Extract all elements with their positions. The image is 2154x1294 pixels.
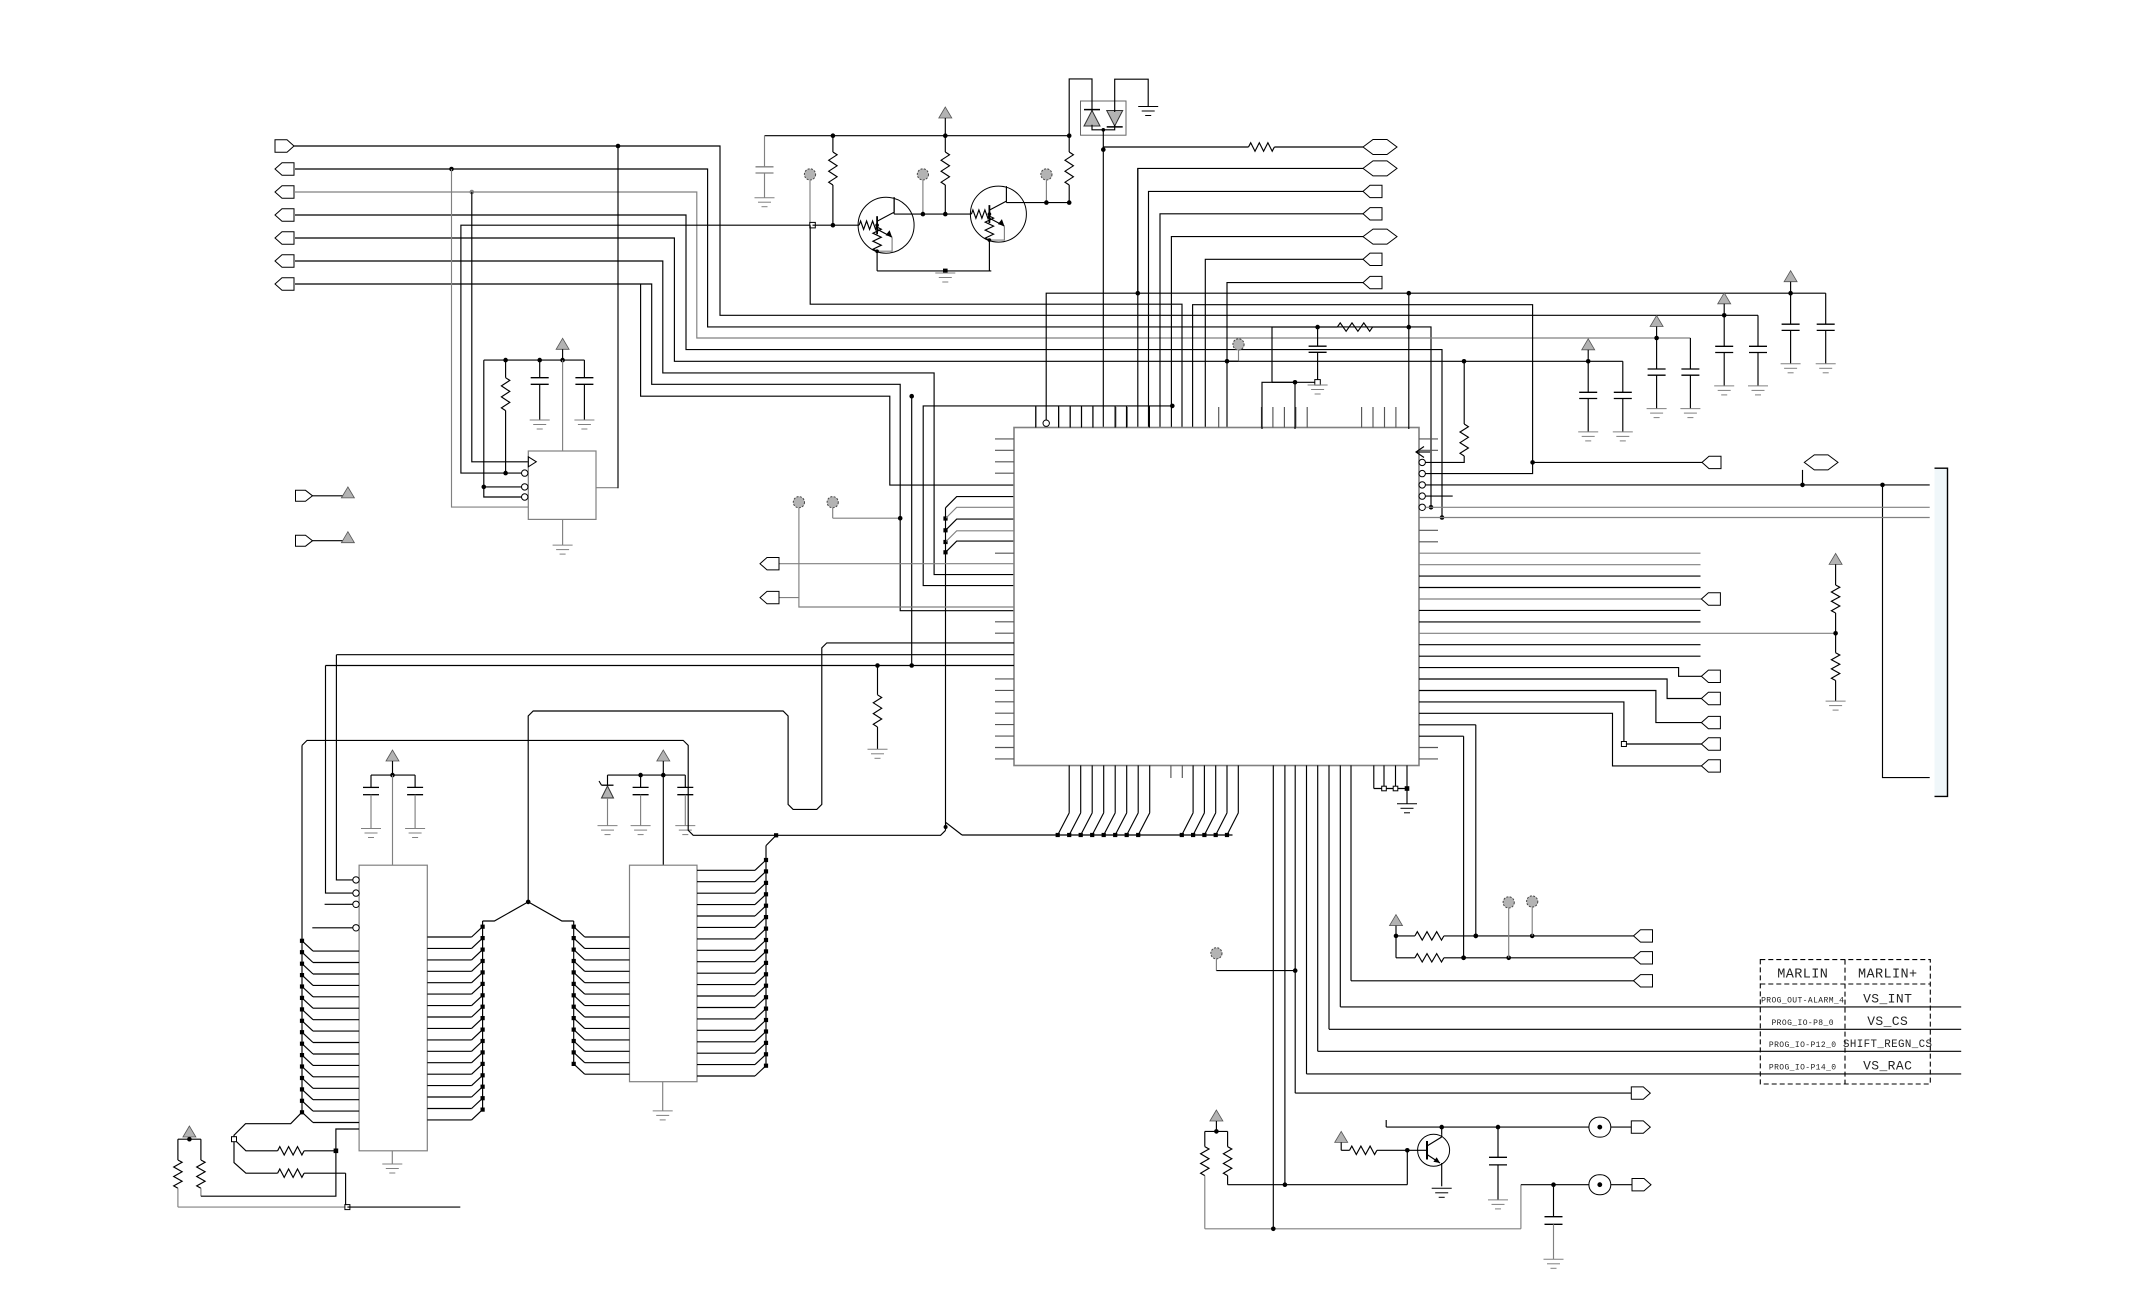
bus L tail	[232, 1112, 303, 1173]
wire r10-run	[201, 1129, 359, 1196]
wire q-collector-rail	[894, 212, 971, 217]
wire ll-pwr	[392, 775, 394, 865]
wire w3	[295, 190, 1690, 338]
resistor R16	[868, 663, 888, 758]
wire clk-route	[461, 225, 810, 473]
bracket BR1	[1935, 468, 1948, 796]
transistor Q2	[970, 186, 1026, 271]
connector J-oval-485	[1803, 455, 1839, 485]
wire tap-911	[909, 394, 914, 668]
wire rowst-701	[1419, 702, 1701, 744]
connector J-1127	[1631, 1121, 1650, 1133]
capacitor C11	[675, 775, 695, 835]
resistor R14	[1201, 1131, 1209, 1228]
wire bus-1317	[1317, 765, 1319, 1051]
capacitor C10	[631, 775, 651, 835]
connector J-left-6	[275, 255, 294, 267]
wire w2	[295, 167, 1433, 510]
wire row-519g	[1419, 517, 1930, 519]
wire row2	[1138, 168, 1363, 429]
connector J-left-2	[275, 163, 294, 175]
table row SHIFT_REGN_CS	[1769, 1039, 1933, 1051]
connector J-left-5	[275, 232, 294, 244]
wire bus-1284	[1284, 765, 1286, 1184]
wire row7	[1227, 283, 1363, 429]
wire row2-tap	[1137, 168, 1139, 293]
capacitor C12	[1488, 1127, 1508, 1209]
resistor R11	[1396, 932, 1634, 940]
resistor R5	[1337, 323, 1411, 331]
bus merge M1	[483, 900, 574, 921]
wire gnd-rail-q	[877, 269, 991, 274]
wire rowst-667	[1419, 668, 1701, 677]
table row VS_CS	[1771, 1014, 1908, 1029]
power VP1	[341, 487, 354, 498]
capacitor C7	[574, 360, 594, 429]
IC U1 right bubble 496.1	[1419, 493, 1425, 499]
capacitor C-topleft	[756, 136, 774, 198]
wire row-505 tail	[1474, 725, 1479, 938]
svg-text:PROG_IO-P12_0: PROG_IO-P12_0	[1769, 1041, 1837, 1050]
wire row-724	[1419, 724, 1476, 726]
svg-text:PROG_IO-P14_0: PROG_IO-P14_0	[1769, 1063, 1837, 1072]
connector J-st-676	[1701, 670, 1720, 682]
wire st-osq	[1621, 742, 1626, 747]
wire row-505g	[1425, 506, 1929, 508]
wire xtal-h	[1272, 325, 1337, 382]
wire w3-branch	[472, 192, 529, 462]
wire lr-rail	[608, 774, 686, 776]
wire row-497stub	[1425, 495, 1452, 497]
ground G-diode	[1138, 107, 1158, 116]
connector J-935	[1634, 930, 1653, 942]
connector J-right-6	[1363, 253, 1382, 265]
wire diode-row	[1101, 147, 1106, 429]
wire r14-run	[1205, 1185, 1554, 1231]
diode pack D1	[1081, 101, 1127, 150]
svg-text:SHIFT_REGN_CS: SHIFT_REGN_CS	[1843, 1039, 1932, 1051]
bus L fan	[300, 745, 359, 1122]
ground G-q	[935, 273, 955, 282]
connector J-980	[1634, 975, 1653, 987]
wire pin-bus	[923, 404, 1174, 586]
wire comb	[1419, 553, 1701, 656]
wire w8	[641, 284, 1014, 485]
transistor Q1	[858, 197, 914, 271]
connector J-957	[1634, 952, 1653, 964]
terminal T2	[917, 169, 928, 214]
wire w5	[295, 238, 1623, 364]
connector J-left-1	[275, 140, 294, 152]
wire r15-run	[1228, 1148, 1410, 1187]
resistor R7	[278, 1147, 339, 1155]
power VCC7	[1335, 1131, 1348, 1150]
connector J-pwr-2	[296, 535, 348, 546]
terminal T6	[827, 497, 902, 521]
svg-text:MARLIN: MARLIN	[1777, 968, 1828, 983]
wire r9-run	[178, 1205, 460, 1210]
wire u2-gnd	[553, 519, 573, 554]
wire Q1-base-sq	[810, 222, 859, 228]
wire rowst-690	[1419, 691, 1701, 723]
IC U11	[630, 865, 698, 1081]
wire w1	[294, 144, 1758, 316]
wire q1-line	[810, 225, 1182, 429]
resistor R-row1	[1249, 143, 1275, 151]
table row VS_INT	[1761, 991, 1912, 1006]
ground G-U11	[653, 1082, 673, 1120]
connector J-right-3	[1363, 185, 1382, 197]
wire vcc5-rail	[178, 1138, 201, 1140]
wire rowst-679	[1419, 679, 1701, 699]
ground G-topleft	[755, 198, 775, 207]
wire u2-rail	[484, 358, 585, 363]
resistor R15	[1223, 1131, 1231, 1184]
resistor R-div-top	[1829, 553, 1842, 633]
testpoint TP2	[1589, 1175, 1634, 1195]
wire row-599g	[1419, 598, 1701, 600]
wire q1-line2	[1193, 305, 1533, 474]
connector J-row1	[1363, 140, 1397, 155]
wire diode-feed2	[1115, 79, 1149, 112]
wire row-633	[1419, 631, 1838, 636]
wire row-1006	[1340, 1006, 1961, 1008]
wire u2-pwr	[562, 360, 564, 451]
IC U1 right bubble 507.3	[1419, 504, 1425, 510]
svg-text:VS_RAC: VS_RAC	[1863, 1058, 1912, 1073]
power VCC2	[556, 338, 569, 360]
bus route B2	[302, 740, 946, 835]
resistor R3	[1065, 136, 1073, 203]
power VCC8	[1210, 1110, 1223, 1134]
resistor R9	[174, 1139, 182, 1207]
IC U2	[528, 451, 596, 519]
wire ll-v1	[336, 655, 359, 880]
wire row1-right2	[1274, 146, 1363, 148]
IC U1 bottom stubs	[1171, 765, 1182, 778]
wire ll-v2	[326, 666, 360, 894]
wire u2-rail-left	[482, 360, 522, 497]
wire rowst-713	[1419, 713, 1701, 766]
wire row-736	[1419, 735, 1464, 737]
terminal T4	[1225, 339, 1244, 364]
connector J-left-4	[275, 209, 294, 221]
wire lrow-665	[326, 665, 1015, 667]
IC U1 left pin stubs	[995, 439, 1014, 759]
bus C top	[766, 833, 778, 845]
connector J-pwr-1	[296, 490, 348, 501]
wire row-1029	[1329, 1028, 1961, 1030]
bus bottom fan	[1056, 765, 1239, 837]
connector J-l563	[760, 558, 779, 570]
connector J-left-3	[275, 186, 294, 198]
wire lr-pwr	[662, 775, 664, 865]
bus fan-left	[943, 497, 1014, 831]
wire row-1127	[1386, 1120, 1589, 1129]
connector J-1093	[1631, 1087, 1650, 1099]
power VCC5	[183, 1126, 196, 1141]
wire row-519 tail	[1461, 736, 1466, 960]
svg-text:MARLIN+: MARLIN+	[1858, 968, 1918, 983]
ground G-q3	[1432, 1188, 1452, 1197]
bus bottom line	[946, 822, 1233, 835]
power VP2	[341, 532, 354, 543]
resistor R6	[501, 360, 509, 475]
IC U10 bubbles	[353, 877, 359, 931]
wire gnd-cluster	[1374, 765, 1409, 803]
table header	[1777, 968, 1917, 983]
IC U2 bubbles	[522, 470, 528, 500]
capacitor C9	[405, 775, 425, 837]
IC U1 top bubble	[1043, 420, 1049, 426]
wire bus-1329	[1328, 765, 1330, 1029]
wire row-485	[1425, 483, 1929, 488]
diode Z1	[598, 775, 618, 835]
table MARLIN box	[1760, 960, 1930, 1084]
wire w7	[295, 284, 1014, 611]
resistor R12	[1396, 936, 1634, 962]
connector J-st-744	[1701, 738, 1720, 750]
wire q2-coll-node	[1006, 200, 1071, 205]
connector J-right-5	[1363, 229, 1397, 244]
wire pinbus risers	[1036, 406, 1150, 428]
wire bus-1306	[1306, 765, 1308, 1074]
IC U1 right pin stubs	[1419, 439, 1438, 759]
wire bus-1351	[1350, 765, 1352, 980]
transistor Q3	[1418, 1134, 1450, 1186]
wire graydot-tap	[1211, 948, 1298, 973]
IC U1 right bubble 462.4	[1419, 459, 1425, 465]
terminal T5	[793, 497, 804, 598]
wire row-1073	[1307, 1073, 1962, 1075]
connector J-right-4	[1363, 208, 1382, 220]
IC U1 clk arrow	[1416, 447, 1430, 458]
wire row-1051	[1318, 1050, 1962, 1052]
wire ll-stub3	[325, 903, 360, 905]
wire bus-1295	[1294, 765, 1296, 1093]
wire q3-coll	[1441, 1127, 1443, 1134]
resistor R10	[197, 1139, 205, 1196]
wire row5	[1171, 237, 1363, 429]
wire row3	[1149, 191, 1364, 429]
resistor R2	[941, 136, 949, 214]
wire row6	[1205, 259, 1363, 429]
power VCC4	[638, 750, 670, 777]
ground G-ic	[1397, 804, 1417, 813]
IC U1	[1014, 428, 1419, 766]
wire lrow-563	[776, 563, 1014, 565]
connector J-599	[1701, 593, 1720, 605]
ground G-U10	[382, 1151, 402, 1173]
wire w6	[295, 261, 1014, 575]
ground G-xtal	[1308, 385, 1328, 394]
resistor R4	[1425, 361, 1468, 462]
wire bus-1273	[1272, 765, 1274, 1228]
svg-text:PROG_OUT-ALARM_4: PROG_OUT-ALARM_4	[1761, 996, 1844, 1005]
capacitor C13	[1544, 1185, 1564, 1269]
bus B fan	[572, 921, 630, 1074]
resistor R13	[1341, 1146, 1417, 1154]
connector J-st-765	[1701, 760, 1720, 772]
wire lrow-597	[776, 598, 1014, 607]
IC U1 right bubble 473.6	[1419, 470, 1425, 476]
IC U10	[359, 865, 427, 1151]
connector J-st-722	[1701, 716, 1720, 728]
wire xtal-riser1	[1262, 380, 1297, 429]
wire Q1-collector	[893, 197, 895, 214]
wire ll-rail	[371, 774, 415, 776]
IC U1 right bubble 484.9	[1419, 482, 1425, 488]
wire top-rail	[765, 133, 1072, 138]
wire row-980	[1351, 980, 1634, 982]
capacitor C8	[361, 775, 381, 837]
bus merge M2	[944, 825, 948, 829]
svg-text:VS_INT: VS_INT	[1863, 991, 1912, 1006]
connector J-st-698	[1701, 692, 1720, 704]
capacitor C5	[1309, 327, 1327, 385]
power VCC3	[386, 750, 399, 777]
capacitor cluster C3	[1714, 293, 1768, 395]
resistor R8	[278, 1169, 346, 1207]
wire ll-stub4	[312, 927, 359, 929]
wire vcc-a-line	[1046, 291, 1826, 426]
wire row4	[1160, 214, 1363, 429]
bus A fan	[427, 921, 484, 1120]
wire diode-feed1	[1069, 79, 1092, 136]
wire row-1184	[1551, 1182, 1589, 1187]
wire row-1093	[1295, 1092, 1633, 1094]
wire w1-branch	[596, 146, 618, 488]
terminal T3	[1041, 169, 1052, 203]
IC U1 top pin stubs	[1036, 407, 1396, 428]
wire row-461b	[1530, 456, 1721, 468]
capacitor cluster C1	[1578, 339, 1633, 441]
wire lrow-654	[336, 654, 1014, 656]
connector J-right-7	[1363, 276, 1382, 288]
terminal T1	[804, 169, 815, 225]
resistor R-div-bot	[1826, 633, 1846, 710]
connector J-right-2	[1363, 161, 1397, 176]
svg-text:PROG_IO-P8_0: PROG_IO-P8_0	[1771, 1019, 1833, 1028]
power VCC6	[1390, 915, 1403, 939]
bus C fan	[697, 846, 768, 1076]
power VCC1	[939, 107, 952, 136]
connector J-l597	[760, 591, 779, 603]
table row VS_RAC	[1769, 1058, 1912, 1073]
wire r5-riser	[1408, 293, 1410, 429]
wire bus-1340	[1339, 765, 1341, 1007]
terminal T7	[1503, 897, 1514, 958]
terminal T8	[1527, 896, 1538, 936]
IC U2 clk sym	[528, 457, 536, 467]
bus route B1	[528, 643, 1014, 902]
wire vcc8-rail	[1205, 1130, 1228, 1132]
svg-text:VS_CS: VS_CS	[1867, 1014, 1908, 1029]
connector J-left-7	[275, 278, 294, 290]
resistor R1	[829, 136, 837, 226]
wire w2-branch	[452, 169, 529, 507]
capacitor C6	[530, 360, 550, 429]
capacitor cluster C2	[1647, 316, 1701, 418]
connector J-1184	[1632, 1179, 1651, 1191]
wire bracket-inner	[1883, 485, 1930, 778]
testpoint TP1	[1589, 1117, 1633, 1137]
wire row1-right	[1103, 146, 1248, 148]
capacitor cluster C4	[1781, 271, 1836, 373]
wire w4	[295, 215, 1444, 520]
